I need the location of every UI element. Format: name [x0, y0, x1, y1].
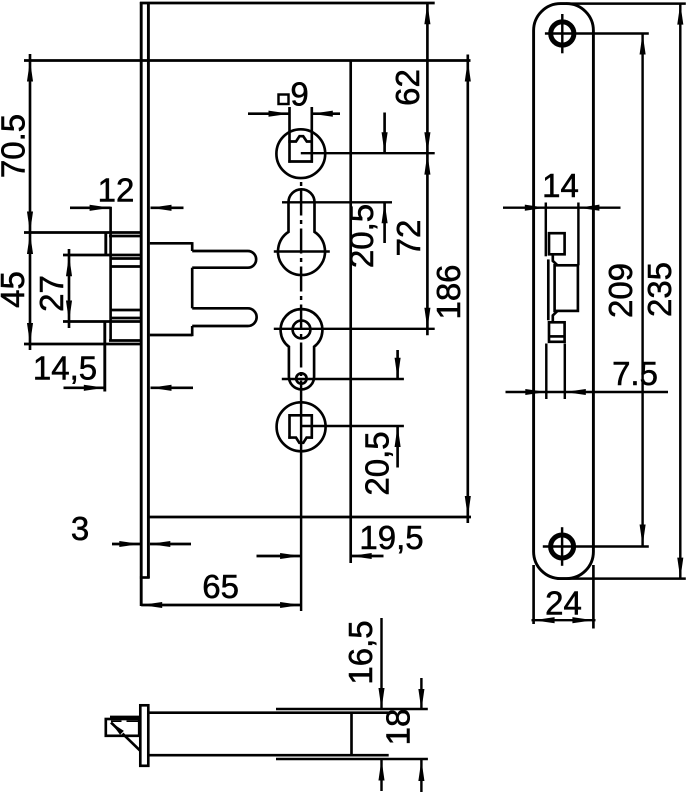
top screw hole center line / 209 extension — [545, 32, 649, 34]
extension 7.5 right — [564, 344, 566, 400]
euro profile cylinder hole — [278, 189, 325, 275]
faceplate right edge (front view) — [147, 2, 150, 578]
svg-text:7.5: 7.5 — [612, 355, 658, 392]
dim line 9 right part — [312, 112, 340, 115]
arrow 62 bottom — [424, 132, 430, 153]
arrow 3 left — [119, 541, 140, 547]
latch step line lower — [111, 317, 141, 320]
bevel arrowhead — [111, 722, 124, 735]
latch head top inner line — [109, 235, 141, 238]
dim line 20.5 upper top part — [383, 113, 386, 154]
bottom screw hole crosshair vertical — [561, 527, 563, 566]
latch inner edge / 12 extension — [109, 207, 112, 342]
svg-text:186: 186 — [430, 264, 467, 319]
euro neck centerline extension — [282, 201, 392, 203]
dim line 70.5 and 45 — [29, 54, 32, 350]
svg-text:12: 12 — [98, 172, 135, 209]
svg-text:20,5: 20,5 — [359, 431, 396, 495]
extension 14 right — [577, 203, 579, 266]
arrow 14.5 left — [84, 385, 105, 391]
arrow 235 top — [677, 4, 683, 25]
arrow 235 bottom — [677, 558, 683, 579]
handle follower circle — [276, 129, 325, 178]
arrow 20.5 lower bottom — [395, 426, 401, 447]
strike plate outline — [534, 4, 594, 579]
arrow 27 bottom — [66, 301, 72, 322]
svg-text:70.5: 70.5 — [0, 114, 32, 178]
arrow 20.5 upper top — [382, 132, 388, 153]
arrow 24 right — [572, 617, 593, 623]
svg-text:235: 235 — [641, 262, 678, 317]
dim line 65 — [141, 604, 301, 607]
cutout lower small box — [549, 322, 565, 342]
arrow 65 left — [141, 602, 162, 608]
latch middle rect top — [112, 265, 142, 268]
dim line 14 — [503, 206, 621, 208]
bottom view faceplate bar — [140, 705, 148, 766]
arrow 65 right — [280, 602, 301, 608]
svg-text:9: 9 — [290, 76, 308, 113]
extension 7.5 left — [545, 344, 547, 400]
plate left edge extension for 24 — [532, 565, 535, 624]
arrow 45 top — [27, 233, 33, 254]
arrow 7.5 left — [525, 389, 546, 395]
upper spindle prong — [192, 251, 256, 268]
dim line 20.5 lower bottom part — [396, 426, 399, 468]
top screw hole crosshair vertical — [561, 14, 563, 53]
dim line 20.5 lower top part — [396, 350, 399, 379]
extension 14 left — [545, 203, 547, 257]
svg-text:14: 14 — [542, 167, 579, 204]
arrow 18 top — [418, 689, 424, 710]
arrow 9 left — [269, 111, 290, 117]
arrow 7.5 right — [565, 389, 586, 395]
dim line 3 left part — [112, 543, 141, 546]
dim line 20.5 upper bottom part — [383, 202, 386, 243]
bottom view latch head box — [106, 719, 139, 736]
latch middle rect bottom — [112, 309, 142, 312]
bottom view case end vertical — [350, 713, 353, 756]
bottom view head thin line segments — [111, 720, 122, 722]
svg-text:19,5: 19,5 — [359, 519, 423, 556]
keyhole small circle horizontal line / 20.5 extension — [282, 378, 404, 380]
dim line 9 left part — [248, 112, 290, 115]
dim line 3 right part — [150, 543, 191, 546]
dim line 14.5 right part — [151, 386, 194, 389]
dim line 18 lower — [420, 760, 422, 792]
arrow 70.5 bottom — [27, 212, 33, 233]
arrow 186 bottom — [465, 496, 471, 517]
dim line 7.5 — [506, 391, 669, 393]
dim line 27 — [68, 249, 71, 328]
svg-text:209: 209 — [602, 263, 639, 318]
bottom view body bottom edge — [149, 754, 388, 757]
arrow 70.5 top — [27, 61, 33, 82]
lock case bottom edge / 186 extension — [149, 516, 471, 519]
faceplate top edge / 62 extension line — [140, 2, 435, 5]
bottom view latch bevel diagonal — [111, 723, 120, 732]
arrow 27 top — [66, 255, 72, 276]
arrow 20.5 upper bottom — [382, 202, 388, 223]
cutout step bottom — [553, 311, 558, 322]
dim line 19.5 right part — [351, 555, 384, 558]
bottom view body top edge — [149, 711, 388, 714]
bottom view bottom strip line / 18 extension — [276, 758, 428, 760]
arrow 14.5 right — [151, 385, 172, 391]
follower square left side / 9 extension — [288, 107, 291, 163]
dim line 235 — [679, 4, 681, 579]
arrow 18 bottom — [418, 760, 424, 781]
arrow 19.5 right — [351, 553, 372, 559]
top screw hole ring — [551, 22, 574, 45]
plate right edge extension for 24 — [592, 565, 595, 629]
arrow 62 top — [424, 3, 430, 24]
latch tail box right edge segments — [191, 242, 194, 251]
dim line 209 — [641, 34, 643, 546]
dim line 18 upper — [420, 678, 422, 710]
dim line 186 — [466, 55, 469, 524]
arrow 14 left — [525, 205, 546, 211]
latch 45-top line — [24, 231, 141, 234]
keyhole circle horizontal centerline / 72 extension — [274, 328, 435, 330]
bottom follower square — [290, 415, 312, 439]
arrow 3 right — [149, 541, 170, 547]
svg-text:27: 27 — [33, 275, 70, 312]
keyhole slot outline — [281, 309, 323, 389]
lower spindle prong — [192, 308, 256, 326]
bottom follower horizontal centerline — [301, 425, 404, 427]
arrow 14 right — [578, 205, 599, 211]
bottom follower square bottom with notch — [288, 438, 313, 443]
latch head bottom inner line — [109, 339, 141, 342]
latch step line upper — [111, 257, 141, 260]
dim line 24 — [532, 619, 596, 621]
lock case top edge / 70.5 extension — [24, 59, 471, 62]
keyhole inner circle — [293, 321, 311, 339]
arrow 16.5 top — [378, 688, 384, 709]
arrow 72 bottom — [424, 308, 430, 329]
latch 27-top line — [63, 254, 141, 257]
svg-text:24: 24 — [545, 585, 582, 622]
cutout middle big box — [555, 265, 578, 311]
follower square bottom — [288, 160, 313, 163]
arrow 45 bottom — [27, 323, 33, 344]
dim line 62 / 72 — [426, 3, 429, 335]
dim line 16.5 lower — [380, 760, 382, 792]
arrow 209 top — [640, 34, 646, 55]
follower square top bump — [288, 136, 313, 141]
latch 45-bottom line — [24, 343, 141, 346]
square symbol for 9 — [279, 95, 289, 105]
arrow 72 top — [424, 154, 430, 175]
svg-text:18: 18 — [380, 709, 417, 746]
bottom view top strip line / 16.5 extension — [276, 708, 428, 710]
svg-text:62: 62 — [389, 69, 426, 106]
keyhole small circle — [296, 373, 306, 383]
arrow 12 left — [90, 205, 111, 211]
dim line 14.5 left part — [64, 386, 105, 389]
bottom follower circle — [277, 402, 326, 451]
plate bottom extension for 235 — [560, 577, 686, 579]
bottom screw hole ring — [551, 535, 574, 558]
bottom view head thick top bar — [110, 716, 141, 719]
dim line 19.5 left part — [257, 555, 302, 558]
latch tail box top — [150, 242, 192, 245]
svg-text:20,5: 20,5 — [343, 204, 380, 268]
svg-text:45: 45 — [0, 271, 31, 308]
cutout lower box inner line — [549, 335, 565, 338]
cutout upper small box — [549, 233, 565, 254]
cutout left bar — [547, 259, 550, 320]
arrow 9 right — [312, 111, 333, 117]
faceplate left edge (front view) — [140, 2, 143, 606]
plate top extension for 235 — [566, 2, 686, 4]
lock case right edge — [349, 61, 352, 564]
arrow 16.5 bottom — [378, 760, 384, 781]
svg-text:72: 72 — [390, 220, 427, 257]
vertical centerline dashed — [300, 182, 302, 391]
svg-text:14,5: 14,5 — [33, 350, 97, 387]
latch front face upper — [104, 233, 107, 256]
arrow 186 top — [465, 61, 471, 82]
arrow 12 right — [151, 205, 172, 211]
arrow 209 bottom — [640, 525, 646, 546]
vertical centerline solid / 65 extension — [300, 391, 302, 611]
arrow 20.5 lower top — [395, 358, 401, 379]
arrow 19.5 left — [280, 553, 301, 559]
bottom screw hole center line / 209 extension — [543, 545, 649, 547]
svg-text:16,5: 16,5 — [342, 620, 379, 684]
cutout step top — [553, 254, 558, 265]
follower square right side / 9 extension — [310, 107, 313, 163]
faceplate bottom cap — [140, 576, 150, 579]
latch 27-bottom line — [63, 320, 141, 323]
svg-text:65: 65 — [202, 568, 239, 605]
euro circle horizontal crosshair — [274, 250, 330, 252]
dim line 12 left part — [70, 206, 111, 209]
dim line 12 right part — [151, 206, 184, 209]
arrow 24 left — [534, 617, 555, 623]
follower horizontal centerline — [301, 152, 435, 154]
svg-text:3: 3 — [71, 510, 89, 547]
latch tail box bottom — [150, 334, 192, 337]
latch front face lower / 14.5 extension — [103, 322, 106, 392]
dim line 16.5 upper — [380, 618, 382, 709]
